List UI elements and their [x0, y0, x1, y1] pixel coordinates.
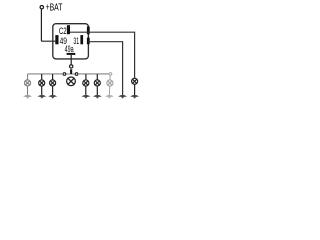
- pin bar right upper (C2 exit): [87, 27, 90, 35]
- svg-text:+BAT: +BAT: [46, 2, 63, 13]
- lamp right indicator: [132, 78, 138, 84]
- lamp L1 grey: [24, 80, 30, 86]
- wire 49a down: [70, 55, 72, 65]
- ground L3: [48, 95, 57, 99]
- drop wire R1: [85, 74, 87, 80]
- ground 31: [118, 95, 127, 99]
- drop wire R2: [96, 74, 98, 80]
- pin bar 49a: [67, 53, 76, 55]
- pilot big lamp: [67, 77, 76, 86]
- ground L1 grey: [23, 95, 32, 99]
- lamp L3: [50, 80, 56, 86]
- wire L3 to ground: [52, 86, 54, 95]
- contact circle right: [75, 73, 78, 76]
- wire L2 to ground: [41, 86, 43, 95]
- left bus wire grey: [28, 74, 64, 80]
- drop wire L3: [52, 74, 54, 80]
- drop wire L2: [41, 74, 43, 80]
- wire connector to lamp R3 grey: [109, 75, 111, 80]
- ground right indicator: [130, 95, 139, 99]
- svg-text:49a: 49a: [65, 44, 74, 54]
- contact circle left: [63, 73, 66, 76]
- wire 31 to ground: [88, 42, 123, 95]
- stub wire left: [66, 73, 70, 75]
- lamp R2: [94, 80, 100, 86]
- connector circle grey: [109, 73, 112, 76]
- pin bar C2: [67, 25, 70, 34]
- right bus wire grey: [78, 73, 110, 75]
- lamp R3 grey: [107, 80, 113, 86]
- lamp R1: [83, 80, 89, 86]
- wire C2 to right indicator lamp: [70, 32, 135, 77]
- stub wire right: [72, 73, 75, 75]
- ground R2: [93, 95, 102, 99]
- lamp L2: [39, 80, 45, 86]
- ground R1: [81, 95, 90, 99]
- wire L1 to ground grey: [27, 86, 29, 95]
- svg-text:31: 31: [73, 36, 79, 46]
- ground L2: [37, 95, 46, 99]
- pin bar 49: [55, 35, 58, 44]
- pin bar 31: [80, 35, 83, 44]
- relay box U1: [53, 24, 89, 59]
- wire +BAT to pin 49: [41, 9, 55, 41]
- ground R3 grey: [105, 95, 114, 99]
- wire R2 to ground: [96, 86, 98, 95]
- pin bar right lower (31 exit): [87, 38, 90, 45]
- wire R1 to ground: [85, 86, 87, 95]
- junction bar: [70, 69, 72, 74]
- wire R3 to ground grey: [108, 86, 110, 95]
- wire lamp to ground: [134, 85, 136, 96]
- terminal switch common: [70, 65, 73, 68]
- terminal +BAT: [40, 6, 43, 9]
- svg-text:C2: C2: [59, 26, 67, 36]
